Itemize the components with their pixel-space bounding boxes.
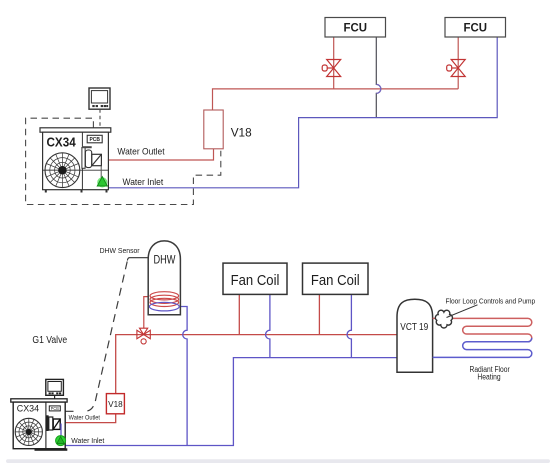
unit body	[43, 132, 109, 190]
unit body	[13, 402, 65, 449]
pump box with diagonal (bottom)	[53, 419, 60, 429]
wire: blue fan coil 1 return with hop	[266, 295, 270, 358]
svg-text:CX34: CX34	[17, 404, 39, 415]
svg-text:Fan Coil: Fan Coil	[311, 273, 360, 289]
wire: red supply header (top)	[213, 89, 459, 110]
wire: red drop FCU2 valve branch	[457, 37, 459, 89]
pointer line to pump	[447, 305, 478, 318]
svg-text:FCU: FCU	[344, 21, 368, 35]
wire: blue floor loop serpentine	[433, 338, 532, 358]
wire: FCU1 dark return drop with hop over red header	[376, 37, 381, 118]
svg-text:Water Inlet: Water Inlet	[71, 438, 104, 445]
unit lid	[11, 399, 67, 402]
pump cloud (floor loop pump)	[435, 310, 452, 328]
sensor pointer solid line	[127, 258, 148, 261]
wire: red floor loop serpentine	[433, 318, 532, 341]
PCB box (top unit)	[87, 135, 102, 143]
tank DHW	[148, 241, 180, 315]
fan (bottom unit)	[15, 418, 42, 445]
wire: red DHW coil feed	[144, 297, 152, 329]
heat pump CX34 (bottom unit)	[11, 399, 68, 451]
mid horizontal line	[43, 169, 109, 171]
wire: red pipe V18 bottom to CX34 water outlet	[101, 149, 213, 160]
display controller (bottom CX34)	[46, 379, 64, 395]
FCU box 1	[325, 18, 386, 38]
svg-text:DHW: DHW	[154, 252, 177, 266]
cylinder top bar	[82, 146, 92, 148]
internal drop line to pump	[100, 166, 102, 178]
coil blue loop	[149, 302, 179, 311]
wire: blue fan coil 2 return with hop	[347, 295, 351, 358]
Fan Coil box 2	[303, 263, 369, 294]
svg-text:Water Outlet: Water Outlet	[69, 414, 101, 421]
valve FCU1 (red 2-way)	[322, 60, 341, 77]
blue internal pipe	[60, 424, 62, 437]
fan (top unit)	[45, 153, 80, 188]
FCU box 2	[445, 18, 506, 38]
svg-text:Fan Coil: Fan Coil	[231, 273, 280, 289]
svg-text:Heating: Heating	[477, 372, 500, 381]
svg-text:V18: V18	[231, 126, 252, 140]
wire: red V18 to CX34 outlet (bottom)	[60, 414, 115, 423]
display controller (top CX34)	[89, 88, 110, 109]
svg-text:Water Outlet: Water Outlet	[117, 146, 165, 157]
wire: red main supply (bottom)	[116, 335, 397, 394]
junction hop arc (purple) on FCU1 return	[376, 84, 381, 93]
unit lid	[40, 128, 111, 132]
dashed display cable	[99, 109, 101, 135]
valve V18 (bottom) red box	[106, 394, 124, 414]
PCB box (bottom unit)	[49, 406, 60, 411]
wire: red fan coil 2 drop	[318, 295, 320, 335]
valve FCU2 (red 2-way)	[447, 60, 466, 77]
dark bar component	[46, 415, 49, 431]
accumulator cylinder	[85, 150, 91, 168]
sensor dashed lead to PCB	[86, 262, 128, 412]
svg-text:Water Inlet: Water Inlet	[123, 177, 164, 188]
pump box with diagonal	[92, 154, 102, 165]
white component	[49, 417, 53, 430]
bottom ui strip	[6, 459, 550, 463]
green flow pump (bottom unit)	[56, 436, 66, 446]
tank VCT 19	[397, 299, 433, 372]
heat pump CX34 (top unit)	[40, 128, 111, 193]
compartment divider	[81, 132, 83, 190]
unit base bar	[35, 448, 68, 451]
svg-text:DHW Sensor: DHW Sensor	[100, 246, 140, 255]
wire: red fan coil 1 drop	[238, 295, 240, 335]
PCB stub line (bottom unit)	[60, 410, 73, 412]
wire: blue return main tank to CX34 inlet	[64, 358, 398, 446]
Fan Coil box 1	[223, 263, 287, 294]
unit feet	[45, 190, 108, 193]
green flow pump (top unit)	[97, 177, 107, 187]
valve V18 (top) box	[204, 110, 223, 149]
dashed control boundary around CX34 to V18	[26, 118, 221, 204]
coil red loops	[150, 292, 179, 300]
display cable (bottom)	[54, 395, 56, 399]
wire: blue return header FCU2 down, left, down, to water inlet	[104, 37, 497, 188]
svg-text:PCB: PCB	[89, 137, 100, 143]
valve G1 (3-way red)	[137, 328, 150, 344]
compartment divider	[45, 402, 47, 449]
svg-text:CX34: CX34	[47, 135, 76, 149]
svg-text:G1 Valve: G1 Valve	[32, 335, 67, 346]
svg-text:PCB: PCB	[51, 406, 59, 411]
accumulator bar	[82, 148, 85, 169]
svg-text:Floor Loop Controls and Pump: Floor Loop Controls and Pump	[446, 296, 536, 305]
svg-text:VCT 19: VCT 19	[400, 321, 428, 333]
svg-text:FCU: FCU	[464, 21, 488, 35]
svg-text:V18: V18	[108, 399, 123, 409]
wire: red drop FCU1 valve branch	[333, 37, 335, 89]
wire: blue DHW coil return with hop	[179, 307, 187, 446]
